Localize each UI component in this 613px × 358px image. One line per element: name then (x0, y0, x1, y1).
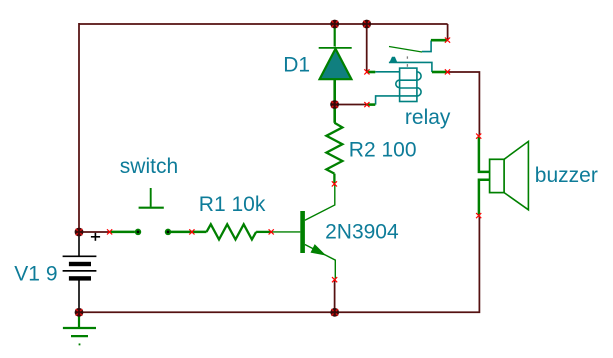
svg-text:buzzer: buzzer (535, 164, 598, 187)
svg-text:V1 9: V1 9 (14, 263, 57, 286)
svg-text:relay: relay (405, 106, 451, 129)
svg-text:switch: switch (120, 155, 178, 178)
svg-text:R2 100: R2 100 (349, 138, 417, 161)
svg-text:D1: D1 (283, 53, 310, 76)
svg-text:R1 10k: R1 10k (199, 193, 266, 216)
svg-text:2N3904: 2N3904 (325, 220, 399, 243)
